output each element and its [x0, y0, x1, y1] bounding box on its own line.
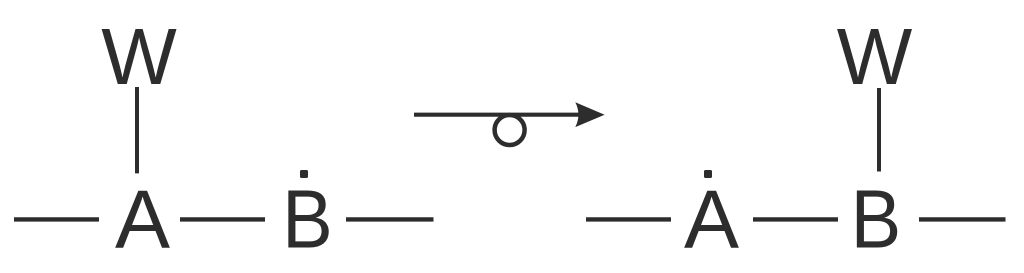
reaction arrow shaft [414, 113, 590, 117]
radical dot on A (right) [704, 170, 712, 178]
svg-text:A: A [684, 174, 739, 266]
bond (left chain, rightmost) [346, 217, 434, 221]
svg-text:W: W [837, 12, 913, 101]
svg-text:A: A [115, 174, 170, 266]
bond (right chain, leftmost) [586, 217, 671, 221]
atom B (right, bearing W) [851, 173, 902, 266]
bond W-A (left, vertical) [135, 87, 139, 173]
reaction arrow head [575, 102, 604, 127]
radical dot on B (left) [300, 170, 308, 178]
svg-text:B: B [282, 173, 333, 266]
bond W-B (right, vertical) [877, 88, 881, 172]
radical transfer circle on arrow [495, 115, 525, 145]
svg-text:B: B [851, 173, 902, 266]
bond A-B (right chain) [753, 217, 838, 221]
bond (left chain, leftmost) [14, 217, 99, 221]
bond A-B (left chain) [180, 217, 265, 221]
atom B radical (left) [282, 173, 333, 266]
svg-text:W: W [101, 12, 177, 101]
bond (right chain, rightmost) [919, 217, 1006, 221]
